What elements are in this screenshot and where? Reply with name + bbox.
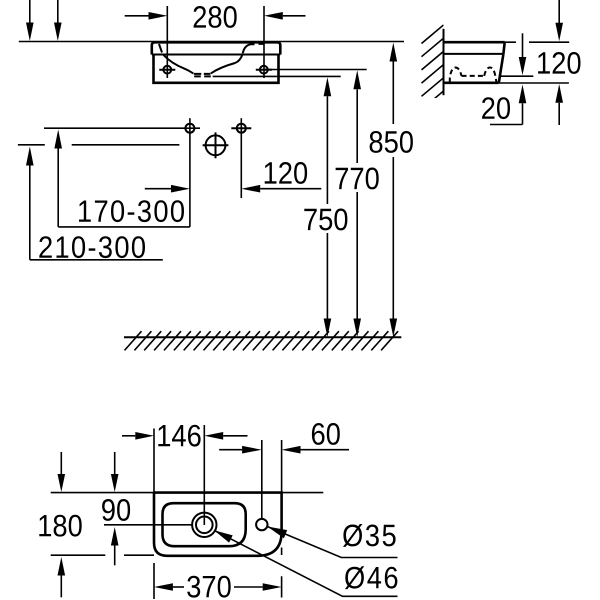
dimension 280 arrows	[125, 15, 150, 17]
wire: 280 extension line right (through right mounting hole)	[263, 6, 265, 78]
big circle (spout outlet)	[206, 135, 226, 155]
hole B (right small cross hole)	[237, 124, 246, 133]
dimension 750	[324, 77, 332, 96]
leader Ø46	[214, 530, 233, 542]
top view: faucet hole	[256, 519, 267, 530]
wire: holes level line (line1)	[44, 127, 200, 129]
dimension 170-300 / 210-300 top arrows at wall line	[29, 0, 31, 23]
top view: basin outer outline	[154, 493, 282, 556]
mounting hole left (front view)	[163, 66, 171, 74]
dimension 20 lower arrow	[519, 85, 527, 104]
side view: wall line	[443, 29, 445, 95]
dimension 90/180 top arrows	[60, 452, 62, 474]
wire: basin front edge extension (left)	[51, 554, 154, 556]
dimension 770	[353, 70, 361, 89]
dimension 120 (side) bottom arrow	[555, 84, 563, 103]
dimension 120 (side) top arrow	[558, 0, 560, 23]
wire: 750-level extension line	[213, 75, 341, 77]
label 120 (side)	[538, 52, 580, 74]
basin front view: rim outline	[152, 42, 280, 54]
basin front view: rim bottom line	[152, 54, 280, 56]
basin front view: interior contour right	[211, 53, 243, 73]
dimension 850	[390, 43, 398, 62]
wire: side 20-level extension line	[500, 75, 533, 77]
floor line	[124, 336, 401, 338]
wire: side top extension line	[505, 41, 570, 43]
dimension 146	[122, 435, 135, 437]
label 20 with leader underline	[490, 124, 523, 126]
dimension 170-300 bottom arrow + underline	[54, 130, 62, 149]
mounting hole right (front view)	[260, 66, 268, 74]
basin front view: hidden drain dashes	[194, 74, 211, 77]
dimension 120 (holes spacing)	[145, 188, 171, 190]
wire: spout level line (line2)	[18, 144, 180, 146]
wire: drain-center level extension	[104, 524, 192, 526]
side view: rim bottom	[444, 53, 504, 55]
dimension 90 bottom arrow	[111, 527, 119, 546]
wire: wall reference line (top, 850 level)	[19, 41, 404, 43]
basin front view: body outline	[154, 55, 279, 83]
dimension 370	[154, 583, 173, 591]
basin front view: ledge curve right	[243, 44, 265, 53]
dimension 180 bottom arrow	[58, 557, 66, 576]
basin front view: overflow tick left	[159, 44, 162, 53]
side view: rim right edge	[503, 42, 504, 54]
side view: hidden interior (dashed)	[450, 68, 497, 83]
leader Ø35	[267, 527, 287, 539]
hole A (left small cross hole)	[185, 124, 194, 133]
side view: basin bottom	[444, 82, 499, 85]
wire: 146 extension lines	[154, 425, 204, 525]
dimension 60	[219, 449, 242, 451]
floor hatching	[125, 331, 399, 350]
top view: drain hole (two concentric circles)	[192, 513, 216, 537]
wire: 770-level extension line	[265, 69, 367, 71]
wire: side bottom extension line	[499, 82, 569, 84]
wire: back/wall line (top view)	[51, 492, 324, 494]
side view: body right edge	[499, 54, 504, 83]
side view: basin top	[444, 41, 505, 44]
wire: 370 extension lines	[154, 548, 282, 600]
wire: 60 extension lines	[262, 440, 282, 519]
label 280	[194, 6, 237, 28]
wire: 280 extension line left (through left mounting hole)	[166, 6, 168, 78]
dimension 210-300 bottom arrow + underline	[26, 147, 34, 166]
top view: inner bowl outline	[163, 503, 246, 546]
dimension 20 upper arrow	[522, 33, 524, 57]
basin front view: interior contour left	[164, 55, 194, 73]
